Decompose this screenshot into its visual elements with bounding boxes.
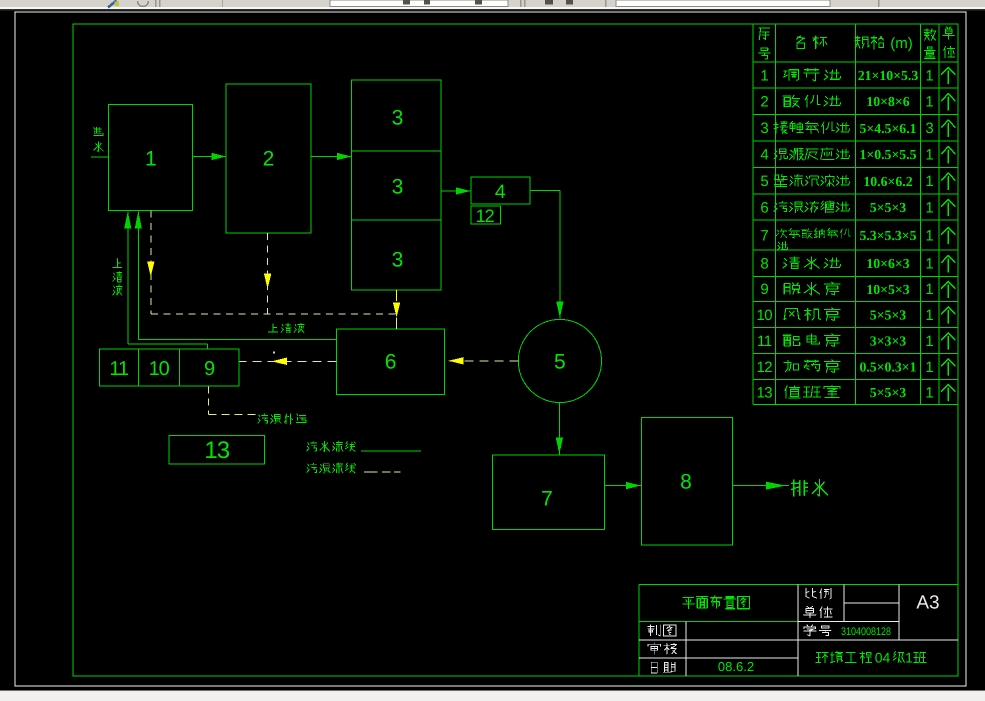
svg-text:1: 1 bbox=[925, 281, 933, 298]
sludge dashed line 5 to 6 bbox=[445, 357, 519, 364]
sludge collector dashed line bbox=[151, 313, 397, 315]
sludge removal dashed line from box 9 bbox=[209, 386, 258, 414]
sludge dashed line 6 to 9 bbox=[240, 358, 337, 365]
label 单位 bbox=[804, 607, 833, 618]
supernatant return wire from box 6 to tank 1 bbox=[135, 211, 337, 339]
svg-text:8: 8 bbox=[760, 255, 768, 272]
svg-text:1: 1 bbox=[925, 384, 933, 401]
svg-text:7: 7 bbox=[760, 227, 768, 244]
svg-text:5×5×3: 5×5×3 bbox=[870, 308, 907, 323]
svg-text:12: 12 bbox=[756, 359, 772, 376]
legend solid line sample bbox=[361, 450, 421, 452]
svg-text:08.6.2: 08.6.2 bbox=[718, 659, 754, 674]
blip mark bbox=[273, 352, 275, 354]
wire 5 to 7 bbox=[556, 403, 563, 455]
svg-text:3: 3 bbox=[925, 120, 933, 137]
box 8 (清水池 clear water tank) bbox=[642, 418, 733, 546]
svg-text:0.5×0.3×1: 0.5×0.3×1 bbox=[859, 360, 916, 375]
svg-text:5×5×3: 5×5×3 bbox=[870, 200, 907, 215]
svg-text:5×5×3: 5×5×3 bbox=[870, 385, 907, 400]
svg-text:9: 9 bbox=[204, 358, 215, 380]
svg-text:1×0.5×5.5: 1×0.5×5.5 bbox=[859, 147, 916, 162]
label 比例 bbox=[806, 589, 831, 599]
table row 7 bbox=[760, 227, 955, 250]
svg-text:10×8×6: 10×8×6 bbox=[866, 94, 909, 109]
svg-text:8: 8 bbox=[680, 470, 692, 493]
table row 9 bbox=[760, 281, 955, 298]
box 12 (加药房 dosing room) bbox=[471, 206, 501, 226]
svg-text:6: 6 bbox=[760, 199, 768, 216]
boxes 11|10|9 (配电房/风机房/脱水房) bbox=[99, 349, 239, 386]
status bar strip (bottom edge of app window) bbox=[0, 690, 985, 701]
label 日期 bbox=[651, 662, 675, 673]
svg-text:11: 11 bbox=[757, 333, 772, 350]
svg-text:2: 2 bbox=[760, 94, 768, 111]
table row 1 bbox=[760, 67, 955, 84]
svg-text:(m): (m) bbox=[890, 35, 913, 52]
table row 3 bbox=[760, 120, 955, 137]
svg-text:1: 1 bbox=[925, 199, 933, 216]
wire 2 to 3 bbox=[311, 153, 352, 160]
inlet wire 进水 bbox=[91, 156, 109, 158]
box 4 (混凝反应池 coagulation reaction tank) bbox=[471, 177, 530, 204]
svg-text:10: 10 bbox=[756, 307, 772, 324]
svg-text:5: 5 bbox=[760, 173, 768, 190]
label 污泥外运 (sludge hauling) bbox=[258, 414, 306, 424]
svg-text:12: 12 bbox=[476, 206, 495, 226]
label 排水 (effluent) bbox=[792, 480, 828, 496]
svg-text:13: 13 bbox=[204, 437, 229, 464]
table row 2 bbox=[760, 94, 955, 111]
svg-text:5: 5 bbox=[554, 351, 566, 374]
svg-text:11: 11 bbox=[109, 358, 129, 380]
svg-text:1: 1 bbox=[905, 649, 913, 665]
tank 1 (调节池 regulating tank) bbox=[109, 105, 193, 211]
svg-text:10: 10 bbox=[149, 358, 170, 380]
table row 5 bbox=[760, 173, 955, 190]
svg-text:3: 3 bbox=[760, 120, 768, 137]
sludge drop line from tank 1 bbox=[147, 211, 154, 314]
svg-text:3: 3 bbox=[392, 249, 404, 272]
class 环境工程04级1班 bbox=[816, 649, 926, 665]
label 进水 (influent) bbox=[94, 127, 103, 151]
svg-text:5.3×5.3×5: 5.3×5.3×5 bbox=[859, 228, 916, 243]
box 7 (次氯酸钠氧化池 NaClO oxidation tank) bbox=[492, 455, 604, 529]
toolbar strip (top edge of app window) bbox=[0, 0, 985, 11]
title block white grid bbox=[639, 585, 958, 677]
svg-text:3: 3 bbox=[392, 107, 404, 130]
svg-text:1: 1 bbox=[760, 67, 768, 84]
parts table grid bbox=[753, 24, 958, 405]
svg-text:4: 4 bbox=[760, 147, 768, 164]
table row 10 bbox=[756, 307, 955, 324]
label 学号 bbox=[804, 625, 831, 636]
legend 污水流线 (sewage flow line) bbox=[307, 441, 356, 452]
svg-text:4: 4 bbox=[495, 181, 506, 203]
svg-text:1: 1 bbox=[925, 227, 933, 244]
table header 序号/名称/规格(m)/数量/单位 bbox=[759, 27, 955, 59]
svg-text:6: 6 bbox=[385, 351, 397, 374]
svg-text:1: 1 bbox=[925, 94, 933, 111]
svg-text:7: 7 bbox=[541, 488, 553, 511]
outlet wire 8 to 排水 bbox=[733, 482, 790, 490]
tank 2 (酸化池 acidification tank) bbox=[226, 84, 311, 233]
box 6 (污泥浓缩池 sludge thickening tank) bbox=[336, 329, 444, 394]
svg-text:04: 04 bbox=[875, 649, 891, 665]
label 上清液 (horizontal, above wire) bbox=[268, 323, 304, 333]
svg-text:1: 1 bbox=[145, 147, 157, 170]
table row 8 bbox=[760, 255, 955, 272]
svg-text:10×5×3: 10×5×3 bbox=[866, 282, 909, 297]
legend 污泥流线 (sludge flow line) bbox=[307, 463, 356, 473]
svg-text:A3: A3 bbox=[916, 593, 939, 614]
wire 1 to 2 bbox=[193, 153, 227, 160]
svg-text:1: 1 bbox=[925, 173, 933, 190]
supernatant return wire from box 9 to tank 1 bbox=[124, 211, 207, 348]
wire 7 to 8 bbox=[605, 482, 642, 489]
drawing title 平面布置图 bbox=[683, 596, 750, 609]
sludge drop line from tank 2 bbox=[264, 233, 271, 314]
svg-text:9: 9 bbox=[760, 281, 768, 298]
svg-text:1: 1 bbox=[925, 333, 933, 350]
table row 4 bbox=[760, 147, 955, 164]
table row 11 bbox=[757, 333, 955, 350]
wire 3 to 4 bbox=[441, 187, 471, 194]
svg-text:1: 1 bbox=[925, 307, 933, 324]
svg-text:10×6×3: 10×6×3 bbox=[866, 256, 909, 271]
svg-text:10.6×6.2: 10.6×6.2 bbox=[863, 174, 912, 189]
sludge drop line from tank stack 3 into box 6 bbox=[393, 290, 400, 329]
table row 12 bbox=[756, 359, 955, 376]
svg-text:5×4.5×6.1: 5×4.5×6.1 bbox=[859, 121, 916, 136]
svg-text:13: 13 bbox=[756, 384, 772, 401]
label 上清液 (vertical, left) bbox=[113, 259, 122, 296]
svg-text:1: 1 bbox=[925, 255, 933, 272]
legend dashed line sample bbox=[364, 471, 400, 473]
svg-text:1: 1 bbox=[925, 147, 933, 164]
label 制图 bbox=[648, 625, 676, 636]
svg-text:21×10×5.3: 21×10×5.3 bbox=[858, 68, 919, 83]
svg-text:2: 2 bbox=[263, 147, 275, 170]
svg-text:1: 1 bbox=[925, 67, 933, 84]
label 审核 bbox=[648, 643, 677, 654]
svg-text:3×3×3: 3×3×3 bbox=[870, 334, 907, 349]
table row 6 bbox=[760, 199, 955, 216]
svg-text:1: 1 bbox=[925, 359, 933, 376]
svg-text:3: 3 bbox=[392, 176, 404, 199]
title block outline bbox=[639, 585, 958, 677]
wire 4 to 5 bbox=[530, 191, 564, 319]
table row 13 bbox=[756, 384, 955, 401]
box 13 (值班室 duty room) bbox=[169, 436, 265, 465]
tank stack 3 (接触氧化池 contact oxidation tanks x3) bbox=[352, 80, 442, 290]
svg-text:3104008128: 3104008128 bbox=[841, 626, 891, 638]
circle 5 (竖流沉淀池 vertical-flow sedimentation tank) bbox=[518, 319, 601, 402]
